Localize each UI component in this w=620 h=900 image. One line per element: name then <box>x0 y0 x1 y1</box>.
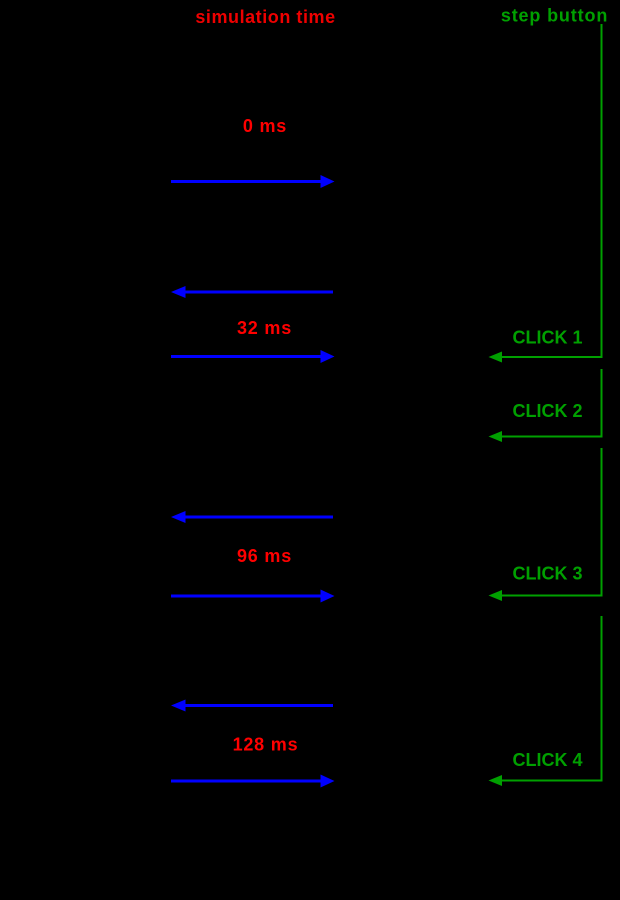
svg-text:CLICK 3: CLICK 3 <box>512 564 582 584</box>
svg-text:CLICK 4: CLICK 4 <box>512 750 582 770</box>
svg-text:step button: step button <box>501 6 608 26</box>
svg-text:CLICK 2: CLICK 2 <box>512 401 582 421</box>
svg-text:0 ms: 0 ms <box>243 116 287 136</box>
svg-text:CLICK 1: CLICK 1 <box>512 328 582 348</box>
svg-text:96 ms: 96 ms <box>237 546 292 566</box>
svg-text:128 ms: 128 ms <box>233 735 299 755</box>
svg-text:simulation time: simulation time <box>195 7 335 27</box>
svg-text:32 ms: 32 ms <box>237 318 292 338</box>
